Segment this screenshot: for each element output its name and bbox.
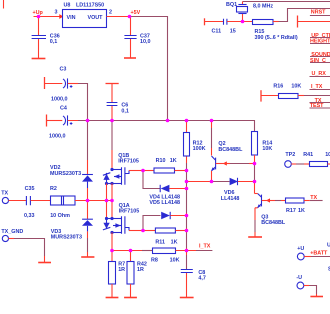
svg-text:NRST: NRST <box>311 10 326 16</box>
svg-text:3: 3 <box>55 10 58 16</box>
svg-text:R41: R41 <box>303 152 313 158</box>
svg-text:LL4148: LL4148 <box>221 196 240 202</box>
svg-text:I_TX: I_TX <box>199 243 211 249</box>
svg-text:VD5 LL4148: VD5 LL4148 <box>149 200 180 206</box>
svg-text:BC848BL: BC848BL <box>218 147 243 153</box>
svg-text:TP2: TP2 <box>285 152 295 158</box>
svg-text:2: 2 <box>109 10 112 16</box>
svg-text:VIN: VIN <box>67 15 76 21</box>
svg-text:VOUT: VOUT <box>88 15 104 21</box>
svg-text:IRF7105: IRF7105 <box>118 159 139 165</box>
svg-text:+U: +U <box>297 246 304 252</box>
svg-text:TX: TX <box>310 195 317 201</box>
svg-text:0,33: 0,33 <box>24 213 35 219</box>
svg-text:10K: 10K <box>291 83 301 89</box>
svg-text:1R: 1R <box>118 267 125 273</box>
svg-text:+5V: +5V <box>131 10 141 16</box>
svg-text:10: 10 <box>325 152 330 158</box>
svg-text:C11: C11 <box>212 29 222 35</box>
svg-text:10,0: 10,0 <box>140 39 151 45</box>
svg-text:R17: R17 <box>286 208 296 214</box>
svg-text:R10: R10 <box>156 158 166 164</box>
svg-text:IRF7105: IRF7105 <box>119 208 140 214</box>
svg-text:8,0 MHz: 8,0 MHz <box>253 4 273 10</box>
svg-text:15: 15 <box>230 29 236 35</box>
svg-text:U8: U8 <box>64 3 71 9</box>
svg-text:TX: TX <box>1 191 8 197</box>
svg-text:1000,0: 1000,0 <box>49 133 66 139</box>
svg-text:4,7: 4,7 <box>198 275 206 281</box>
svg-text:U_RX: U_RX <box>312 71 327 77</box>
svg-text:100K: 100K <box>193 146 206 152</box>
svg-text:TX_GND: TX_GND <box>1 229 23 235</box>
svg-text:1R: 1R <box>137 267 144 273</box>
svg-text:C3: C3 <box>60 67 67 73</box>
svg-text:R2: R2 <box>50 186 57 192</box>
svg-text:1K: 1K <box>298 208 305 214</box>
svg-text:-U: -U <box>296 275 302 281</box>
svg-text:10K: 10K <box>170 257 180 263</box>
svg-text:1000,0: 1000,0 <box>51 96 68 102</box>
svg-text:C4: C4 <box>60 105 67 111</box>
svg-text:C35: C35 <box>25 186 35 192</box>
svg-text:LD1117S50: LD1117S50 <box>76 3 104 9</box>
svg-text:390 (5..6 * Rdtall): 390 (5..6 * Rdtall) <box>255 35 298 41</box>
svg-text:BC848BL: BC848BL <box>261 220 286 226</box>
svg-text:MURS230T3: MURS230T3 <box>51 235 82 241</box>
svg-text:R8: R8 <box>151 257 158 263</box>
svg-text:0,1: 0,1 <box>50 39 58 45</box>
svg-text:MURS230T3: MURS230T3 <box>50 171 81 177</box>
svg-text:1K: 1K <box>170 158 177 164</box>
svg-text:1K: 1K <box>171 240 178 246</box>
svg-text:BQ1: BQ1 <box>226 2 237 8</box>
svg-text:0,1: 0,1 <box>121 108 128 114</box>
svg-text:R16: R16 <box>273 83 283 89</box>
svg-text:+BATT: +BATT <box>310 250 328 256</box>
svg-text:10K: 10K <box>262 146 272 152</box>
svg-text:10 Ohm: 10 Ohm <box>50 213 70 219</box>
svg-text:R11: R11 <box>155 240 165 246</box>
